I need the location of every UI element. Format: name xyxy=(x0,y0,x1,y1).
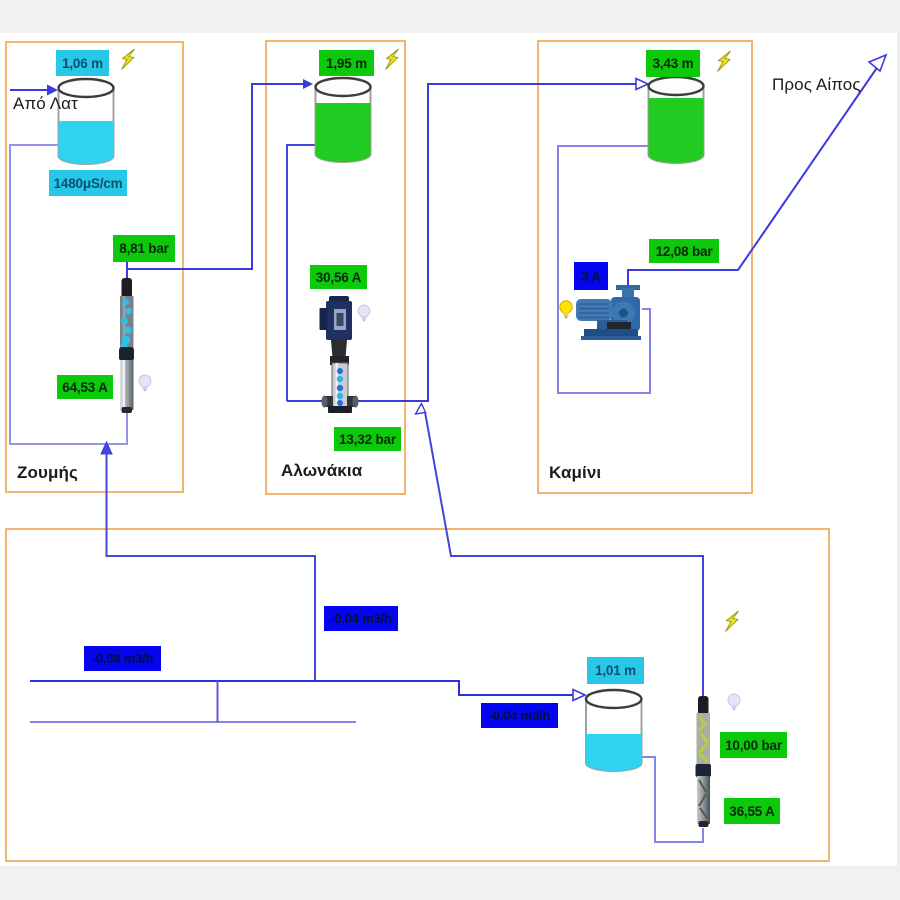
wire connector between collectors xyxy=(217,681,219,722)
level label 1,06 m xyxy=(56,50,109,76)
bulb on pump P3 xyxy=(560,301,572,318)
arrow into tank T1 xyxy=(47,85,58,96)
level label 3,43 m xyxy=(646,50,700,77)
text Pros Aipos xyxy=(772,75,861,95)
arrow junction at pump P1 suction xyxy=(101,442,112,454)
tank T1 (Zoumis, cyan water) xyxy=(59,79,114,164)
wire main bottom collector xyxy=(30,681,577,695)
bottom gray band xyxy=(0,866,900,900)
pressure label 12,08 bar xyxy=(649,239,719,263)
text Kamini xyxy=(549,463,601,483)
wire inlet to tank T1 xyxy=(10,89,50,91)
station box Kamini xyxy=(537,40,753,494)
current label 64,53 A xyxy=(57,375,113,399)
arrow into tank T3 xyxy=(636,79,648,90)
text Apo Lat xyxy=(13,94,78,114)
flow label -0,04 m3/h upper xyxy=(324,606,398,631)
station box bottom wells xyxy=(5,528,830,862)
current label 36,55 A xyxy=(724,798,780,824)
tank T3 (Kamini, green water) xyxy=(649,77,704,163)
arrow to Aipos xyxy=(869,55,886,71)
tank T4 (well tank, cyan water) xyxy=(586,690,642,771)
wire tank T2 outlet to pump P2 xyxy=(287,145,316,401)
top gray band xyxy=(0,0,900,33)
pump P1 (borehole pump Zoumis) xyxy=(119,278,134,413)
bulb off pump P4 xyxy=(728,694,740,710)
arrow into tank T4 xyxy=(573,690,585,701)
station box Zoumis xyxy=(5,41,184,493)
flow label -0,08 m3/h xyxy=(84,646,161,671)
pump P3 (centrifugal Kamini) xyxy=(576,285,641,340)
wire pump P1 discharge to tank T2 xyxy=(127,84,305,269)
level label 1,95 m xyxy=(319,50,374,76)
lightning icon well station xyxy=(726,611,739,632)
arrow into tank T2 xyxy=(303,79,313,89)
lightning icon station 3 xyxy=(718,51,731,72)
lightning icon station 2 xyxy=(386,49,399,70)
lightning icon station 1 xyxy=(122,49,135,70)
conductivity label 1480uS/cm xyxy=(49,170,127,196)
pump P2 (vertical multistage Alonakia) xyxy=(320,296,359,413)
bulb off pump P1 xyxy=(139,375,151,391)
wire second bottom collector xyxy=(30,721,356,723)
wire pump P2 discharge to tank T3 xyxy=(287,84,639,401)
current label 30,56 A xyxy=(310,265,367,289)
level label 1,01 m xyxy=(587,657,644,684)
text Zoumis xyxy=(17,463,78,483)
wire tank T3 outlet to pump P3 suction xyxy=(558,146,650,393)
right gray strip xyxy=(897,33,900,866)
station box Alonakia xyxy=(265,40,406,495)
text Alonakia xyxy=(281,461,362,481)
wire tank T1 outlet loop to pump P1 suction xyxy=(10,145,127,444)
pump P4 (borehole well pump) xyxy=(696,696,712,827)
current label 3 A xyxy=(574,262,608,290)
pressure label 13,32 bar xyxy=(334,427,401,451)
flow label -0,04 m3/h lower xyxy=(481,703,558,728)
wire well line up to node at pump P1 suction xyxy=(107,454,316,681)
tank T2 (Alonakia, green water) xyxy=(316,78,371,162)
wire tank T4 outlet to pump P4 suction xyxy=(641,757,703,842)
pressure label 10,00 bar xyxy=(720,732,787,758)
wire pump P4 discharge to junction xyxy=(425,412,703,697)
bulb off pump P2 xyxy=(358,305,370,321)
arrow junction at pump P2 discharge xyxy=(416,404,426,415)
wire pump P3 discharge to Aipos xyxy=(628,59,883,288)
pressure label 8,81 bar xyxy=(113,235,175,262)
